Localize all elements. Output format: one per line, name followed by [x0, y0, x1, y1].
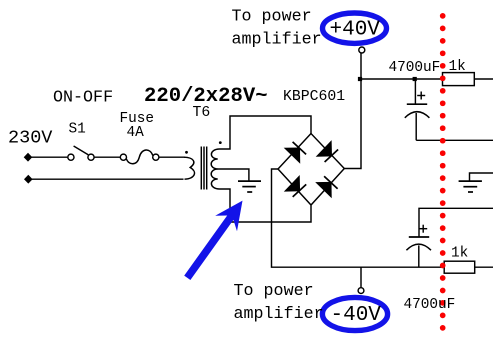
capacitor C2 4700uF (-rail) [406, 237, 431, 267]
svg-text:To power: To power [234, 282, 314, 301]
node 230V terminal top (diamond) [24, 153, 33, 162]
wire: secondary bottom to bridge bottom [220, 189, 312, 222]
wire: ground rail bottom from right edge to C2 [419, 208, 493, 236]
capacitor C1 4700uF (+rail) [405, 79, 430, 140]
transformer T6 secondary winding [211, 149, 219, 189]
resistor R1 1k (bleeder, +rail) [443, 73, 475, 86]
wire: bridge right node to +40V vertical [344, 53, 361, 169]
wire N bottom: diamond to transformer primary [31, 178, 184, 180]
svg-text:230V: 230V [8, 127, 52, 148]
wire: -40V branch to terminal [360, 267, 362, 288]
wire: fuse to transformer primary [159, 156, 185, 158]
diode D3 (lower-left, left node to bottom) [284, 175, 306, 197]
resistor R2 1k (bleeder, -rail) [444, 261, 475, 273]
wire L top: diamond to switch S1 [31, 156, 67, 158]
label To power amplifier (top) [232, 8, 322, 50]
svg-text:KBPC601: KBPC601 [283, 89, 345, 105]
wire: R2 to right edge [475, 266, 493, 268]
wire: +40V rail [361, 78, 443, 80]
svg-text:1k: 1k [451, 245, 468, 261]
callout ellipse -40V [322, 297, 387, 330]
ground (right edge) [459, 181, 482, 192]
svg-text:amplifier: amplifier [232, 31, 322, 50]
fuse F1 4A [120, 150, 159, 164]
wire: switch to fuse [94, 156, 120, 158]
svg-text:T6: T6 [193, 105, 211, 121]
node 230V terminal bottom (diamond) [24, 175, 33, 184]
wire: secondary center tap to ground [218, 169, 249, 181]
svg-text:1k: 1k [449, 59, 466, 75]
switch S1 [68, 146, 94, 160]
C1 polarity plus [417, 92, 425, 100]
svg-text:S1: S1 [69, 122, 86, 138]
svg-text:ON-OFF: ON-OFF [53, 89, 113, 108]
wire: bridge left node down to -40V rail [272, 169, 445, 267]
annotation arrow (blue, points at transformer ground) [184, 201, 242, 280]
callout ellipse +40V [323, 13, 387, 43]
ground (center tap) [238, 181, 261, 192]
wire: secondary top to bridge top [220, 116, 312, 149]
diode D4 (lower-right, bottom node to right) [315, 176, 337, 198]
transformer T6 primary winding [184, 157, 195, 179]
svg-text:4700uF: 4700uF [389, 60, 441, 76]
svg-text:4A: 4A [127, 125, 145, 141]
C2 polarity plus [419, 225, 427, 233]
label To power amplifier (bottom) [234, 282, 324, 324]
junction at +rail/bridge column [358, 77, 362, 81]
dashed separator (red dotted line) [440, 13, 446, 331]
diode D1 (upper-left, left node to top) [284, 142, 306, 164]
svg-text:To power: To power [232, 8, 312, 27]
label Fuse 4A [120, 111, 155, 141]
secondary phase dot [219, 141, 222, 144]
wire: C1 to right edge (ground rail top) [416, 139, 493, 141]
primary phase dot [185, 151, 188, 154]
wire: right edge to ground [470, 173, 493, 181]
svg-text:-40V: -40V [331, 304, 382, 327]
junction at C1 [413, 77, 417, 81]
svg-text:amplifier: amplifier [234, 305, 324, 324]
diode D2 (upper-right, top node to right) [316, 140, 338, 162]
terminal -40V (open circle) [358, 288, 364, 294]
wire: R1 to right edge [474, 78, 493, 80]
bridge rectifier frame (diamond wires) [278, 134, 344, 206]
svg-text:+40V: +40V [330, 18, 381, 41]
transformer T6 core [201, 147, 206, 190]
terminal +40V (open circle) [359, 47, 365, 53]
svg-text:4700uF: 4700uF [404, 297, 456, 313]
